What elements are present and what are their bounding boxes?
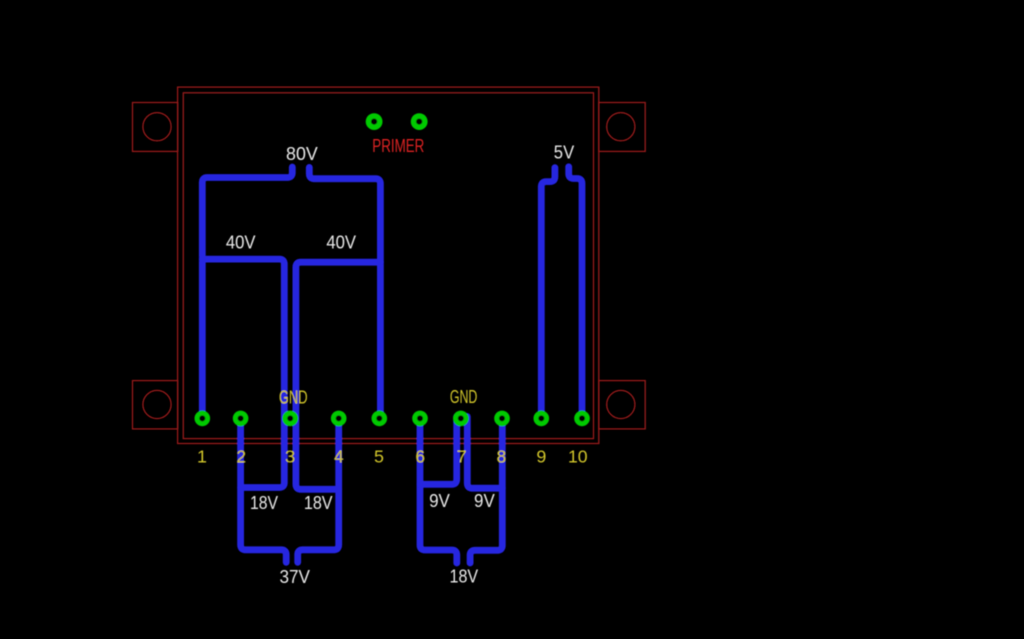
pad 7	[453, 411, 469, 427]
wire pad6 to 18V bottom left stub	[420, 421, 457, 563]
svg-text:5: 5	[374, 447, 384, 467]
board outline inner rectangle	[183, 93, 593, 439]
svg-text:10: 10	[568, 447, 588, 467]
pad 4	[331, 411, 347, 427]
wire 40V right bracket (pad5 tap down past pad3 to 18V rail)	[296, 262, 381, 489]
svg-text:1: 1	[197, 447, 207, 467]
pad 2	[233, 411, 249, 427]
wire 40V left bracket (pad1 tap down past pad3 to 18V rail)	[202, 259, 284, 487]
wire pad2 to 37V left stub	[241, 421, 287, 562]
svg-text:GND: GND	[450, 386, 478, 407]
svg-text:37V: 37V	[279, 566, 310, 587]
pad 8	[494, 411, 510, 427]
pad 9	[534, 411, 550, 427]
wire pad4 to 37V right stub	[298, 421, 339, 562]
mounting tab bottom-left	[133, 381, 178, 429]
svg-text:18V: 18V	[304, 492, 333, 513]
svg-text:2: 2	[236, 447, 246, 467]
svg-text:18V: 18V	[450, 566, 479, 587]
svg-text:3: 3	[285, 447, 295, 467]
pad 10	[574, 411, 590, 427]
svg-text:4: 4	[334, 447, 344, 467]
svg-text:40V: 40V	[226, 232, 256, 253]
pad 3	[282, 411, 298, 427]
svg-text:GND: GND	[279, 387, 308, 408]
mounting tab bottom-right	[599, 381, 645, 429]
svg-text:6: 6	[415, 447, 425, 467]
svg-text:PRIMER: PRIMER	[372, 135, 424, 156]
wire pad1 to 80V left bracket	[202, 167, 292, 421]
svg-text:8: 8	[496, 447, 506, 467]
wire 9V left bracket pad6 to pad7	[420, 417, 457, 485]
wire pad5 to 80V right bracket	[309, 167, 380, 421]
svg-text:9V: 9V	[474, 490, 495, 511]
mounting tab top-left	[133, 103, 178, 152]
board outline outer rectangle	[178, 87, 599, 443]
svg-text:80V: 80V	[286, 143, 318, 164]
svg-text:7: 7	[457, 447, 467, 467]
mounting tab top-right	[599, 103, 645, 152]
primary pad P2	[411, 113, 428, 130]
svg-text:5V: 5V	[554, 142, 575, 163]
pad 1	[195, 411, 211, 427]
svg-text:18V: 18V	[250, 492, 279, 513]
wire pad8 to 18V bottom right stub	[470, 421, 502, 563]
svg-text:40V: 40V	[326, 232, 356, 253]
primary pad P1	[366, 113, 383, 130]
svg-text:9V: 9V	[429, 490, 451, 511]
wire pad10 to 5V right bracket	[569, 167, 582, 421]
pad 6	[412, 411, 428, 427]
wire pad9 to 5V left bracket	[541, 168, 555, 421]
svg-text:9: 9	[536, 447, 546, 467]
wire 9V right bracket pad8 to pad7	[467, 417, 502, 489]
pad 5	[372, 411, 388, 427]
